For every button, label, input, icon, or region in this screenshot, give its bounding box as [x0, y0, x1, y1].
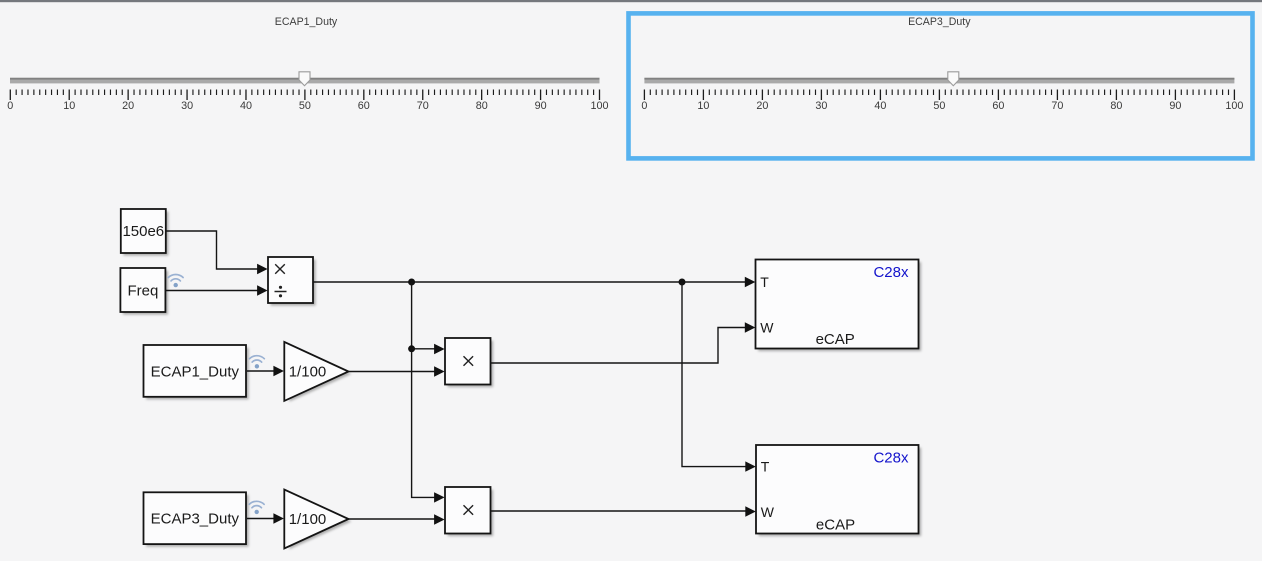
wire product1 to eCAP1 W input: [491, 328, 747, 364]
svg-text:100: 100: [590, 100, 608, 112]
branch wire to product1 input1: [412, 348, 436, 350]
svg-text:W: W: [760, 320, 774, 336]
arrowhead into product1 input2: [434, 366, 445, 376]
vertical branch wire x=411.6 down to product blocks: [412, 282, 436, 497]
svg-text:150e6: 150e6: [122, 223, 164, 240]
wire ECAP3_Duty to gain3: [247, 518, 275, 520]
svg-text:10: 10: [697, 100, 709, 112]
arrowhead into product2 input1: [434, 492, 445, 502]
svg-text:30: 30: [181, 100, 193, 112]
wireless tunable icon on ECAP3_Duty: [249, 501, 264, 514]
dashboard block ECAP1_Duty: [144, 345, 249, 399]
svg-text:10: 10: [63, 100, 75, 112]
junction node on main wire at x=411.6: [408, 279, 415, 286]
svg-text:60: 60: [358, 100, 370, 112]
svg-text:C28x: C28x: [873, 264, 909, 281]
arrowhead into eCAP2 T: [745, 461, 756, 471]
svg-text:70: 70: [1051, 100, 1063, 112]
wire gain3 to product2 input2: [349, 518, 436, 520]
wire 150e6 to divide input 1: [166, 231, 259, 269]
arrowhead into product2 input2: [434, 514, 445, 524]
constant block 150e6: [121, 209, 169, 256]
svg-text:40: 40: [240, 100, 252, 112]
svg-text:C28x: C28x: [873, 450, 909, 467]
wireless tunable icon on Freq: [168, 274, 183, 287]
dashboard block ECAP3_Duty: [144, 492, 249, 546]
selection highlight border around ECAP3_Duty slider: [629, 13, 1253, 158]
wire ECAP1_Duty to gain1: [247, 370, 275, 372]
svg-text:80: 80: [476, 100, 488, 112]
junction node on main wire at x=682: [679, 279, 686, 286]
slider ECAP3_Duty thumb at value 52: [948, 72, 959, 86]
slider ECAP1_Duty major ticks: [10, 90, 599, 101]
svg-text:eCAP: eCAP: [816, 516, 855, 533]
svg-text:1/100: 1/100: [289, 511, 327, 528]
wire gain1 to product1 input2: [349, 371, 436, 373]
slider ECAP3_Duty minor ticks: [650, 90, 1228, 96]
slider ECAP1_Duty track: [10, 78, 600, 84]
svg-text:90: 90: [535, 100, 547, 112]
svg-text:1/100: 1/100: [289, 364, 327, 381]
svg-text:90: 90: [1169, 100, 1181, 112]
product block 2: [445, 487, 493, 536]
svg-text:50: 50: [299, 100, 311, 112]
svg-text:ECAP1_Duty: ECAP1_Duty: [275, 16, 338, 28]
arrowhead into eCAP1 T: [745, 277, 756, 287]
svg-text:20: 20: [122, 100, 134, 112]
arrowhead into divide input 1: [257, 264, 268, 274]
wireless tunable icon on ECAP1_Duty: [250, 356, 265, 369]
svg-text:eCAP: eCAP: [816, 331, 855, 348]
svg-text:60: 60: [992, 100, 1004, 112]
slider ECAP1_Duty tick labels 0-100: [7, 100, 608, 112]
svg-text:70: 70: [417, 100, 429, 112]
divide block x/: [268, 257, 316, 306]
wire Freq to divide input 2: [166, 290, 259, 292]
svg-text:W: W: [761, 504, 775, 520]
constant block Freq: [120, 268, 168, 315]
eCAP1 block: [756, 260, 922, 352]
svg-text:50: 50: [933, 100, 945, 112]
arrowhead into product1 input1: [434, 344, 445, 354]
slider ECAP3_Duty track: [644, 78, 1234, 84]
top toolbar divider bar: [0, 0, 1262, 2]
gain block 1/100 upper: [284, 342, 351, 402]
gain block 1/100 lower: [284, 490, 351, 550]
svg-text:ECAP3_Duty: ECAP3_Duty: [908, 16, 971, 28]
svg-text:ECAP1_Duty: ECAP1_Duty: [151, 363, 240, 380]
eCAP2 block: [756, 445, 921, 536]
svg-text:20: 20: [756, 100, 768, 112]
slider ECAP1_Duty thumb at value 50: [299, 72, 310, 86]
wire product2 to eCAP2 W input: [491, 510, 747, 512]
junction node at branch to product1: [408, 345, 415, 352]
arrowhead into eCAP2 W: [745, 506, 756, 516]
product block 1: [445, 338, 493, 387]
svg-text:Freq: Freq: [127, 283, 158, 300]
arrowhead into eCAP1 W: [745, 322, 756, 332]
slider ECAP1_Duty minor ticks: [16, 90, 593, 96]
svg-text:40: 40: [874, 100, 886, 112]
svg-text:80: 80: [1110, 100, 1122, 112]
slider ECAP3_Duty tick labels 0-100: [641, 100, 1243, 112]
svg-text:ECAP3_Duty: ECAP3_Duty: [151, 511, 240, 528]
svg-text:0: 0: [641, 100, 647, 112]
wire divide output to eCAP1 T input: [313, 281, 746, 283]
svg-text:0: 0: [7, 100, 13, 112]
vertical branch wire x=682 down to eCAP2 T: [682, 282, 747, 467]
slider ECAP3_Duty major ticks: [644, 90, 1234, 101]
arrowhead into gain3: [273, 513, 284, 523]
svg-text:30: 30: [815, 100, 827, 112]
arrowhead into divide input 2: [257, 285, 268, 295]
arrowhead into gain1: [273, 366, 284, 376]
svg-text:T: T: [761, 459, 770, 475]
svg-text:T: T: [760, 274, 769, 290]
svg-text:100: 100: [1225, 100, 1243, 112]
